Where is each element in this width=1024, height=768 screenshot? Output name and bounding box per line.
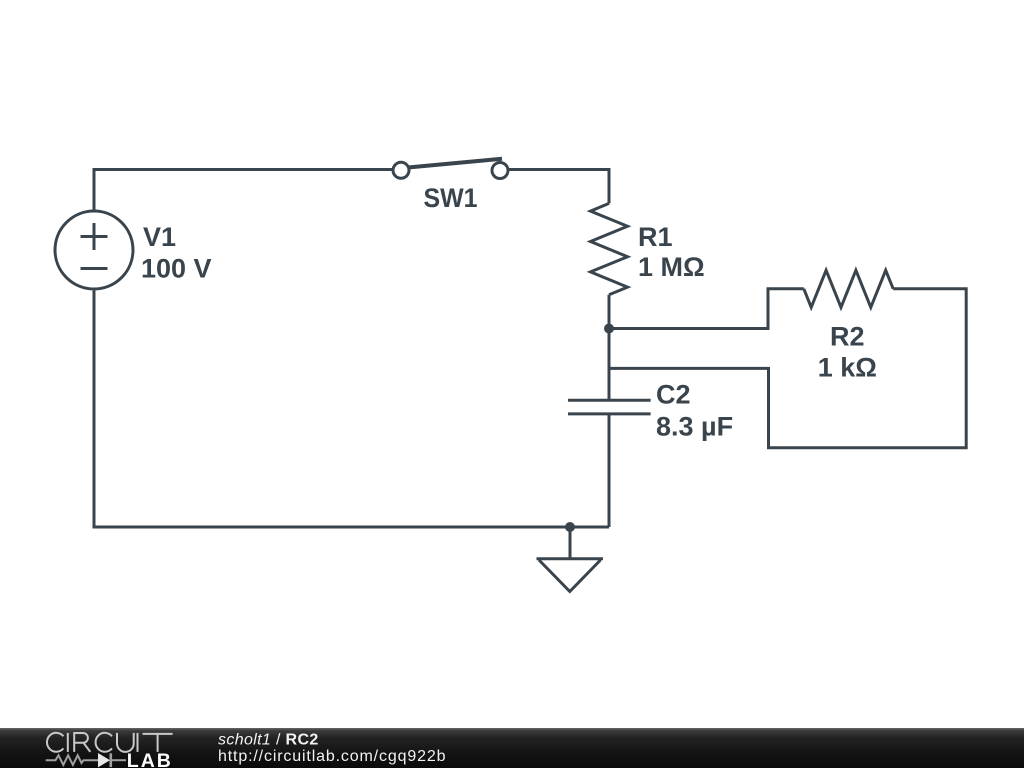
svg-text:100 V: 100 V	[141, 253, 212, 283]
V1 plus sign	[81, 223, 108, 250]
resistor R2	[804, 270, 893, 307]
ground symbol	[537, 559, 604, 592]
logo letter C	[96, 733, 112, 752]
resistor R1	[591, 203, 628, 294]
logo letter I	[137, 733, 139, 752]
wire from SW1 right terminal to R1 corner	[508, 168, 610, 171]
footer black bar	[0, 728, 1024, 768]
svg-text:SW1: SW1	[424, 183, 478, 213]
CircuitLab logo word CIRCUIT	[47, 733, 173, 752]
wire R2 right lead loop to C2 branch	[609, 289, 966, 448]
logo letter T	[143, 734, 173, 752]
wire bottom from V1 to C2 branch	[94, 526, 609, 529]
wire R1 top lead	[608, 168, 611, 203]
svg-text:LAB: LAB	[127, 750, 173, 768]
switch SW1 left contact circle	[393, 162, 409, 178]
logo resistor zigzag	[46, 755, 98, 765]
wire C2 bottom lead	[608, 414, 611, 527]
logo letter R	[74, 733, 90, 752]
logo letter U	[117, 733, 134, 752]
capacitor C2 top plate	[568, 399, 651, 402]
capacitor C2 bottom plate	[568, 412, 651, 415]
logo letter C	[47, 733, 63, 752]
node junction dot at R1/R2/C2	[604, 324, 614, 334]
wire ground stub	[569, 527, 572, 559]
svg-text:V1: V1	[143, 222, 176, 252]
svg-text:1 MΩ: 1 MΩ	[638, 252, 705, 282]
switch SW1 lever	[408, 159, 502, 168]
svg-text:8.3 µF: 8.3 µF	[656, 412, 733, 442]
voltage source V1	[55, 211, 133, 289]
svg-text:C2: C2	[656, 380, 691, 410]
svg-text:scholt1 / RC2: scholt1 / RC2	[218, 732, 319, 749]
wire V1 bottom lead	[93, 291, 96, 529]
ground node dot on bottom wire	[565, 522, 575, 532]
svg-text:1 kΩ: 1 kΩ	[818, 353, 877, 383]
wire top from V1 to SW1 left terminal	[94, 168, 393, 171]
logo letter I	[67, 733, 69, 752]
svg-text:R1: R1	[638, 222, 673, 252]
V1 minus sign	[81, 267, 108, 270]
switch SW1 right contact circle	[492, 163, 508, 179]
logo resistor-diode strip	[46, 753, 126, 767]
logo diode lead	[111, 759, 127, 761]
logo diode cathode bar	[110, 753, 113, 767]
svg-text:R2: R2	[830, 321, 865, 351]
wire R1 bottom lead to node	[608, 295, 611, 329]
svg-text:http://circuitlab.com/cgq922b: http://circuitlab.com/cgq922b	[218, 748, 446, 765]
logo diode triangle	[98, 753, 110, 767]
wire C2 top lead	[608, 327, 611, 400]
wire V1 top lead	[93, 168, 96, 210]
wire node to R2 left lead	[609, 289, 804, 329]
